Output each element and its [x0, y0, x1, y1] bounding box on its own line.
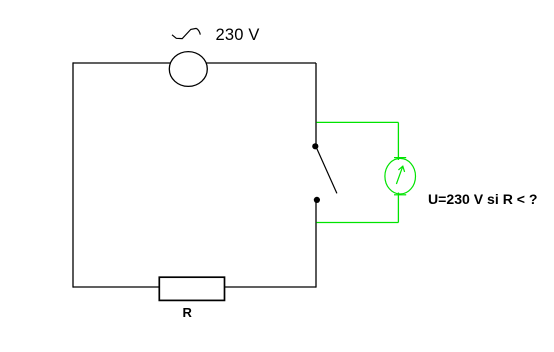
green wire right lower [397, 193, 399, 223]
wire right lower (switch to bottom node) [315, 200, 317, 288]
wire right upper (top node to switch) [315, 63, 317, 146]
green wire top (switch top to voltmeter) [316, 121, 398, 123]
switch S1 lever [317, 149, 337, 194]
resistor R [159, 277, 224, 300]
svg-text:U=230 V si R < ?: U=230 V si R < ? [428, 192, 538, 207]
AC source V1 [169, 52, 207, 87]
voltmeter needle [396, 166, 404, 184]
switch S1 top contact [312, 143, 318, 149]
green wire bottom (voltmeter back to switch bottom) [316, 222, 398, 224]
green wire right upper [397, 122, 399, 160]
voltmeter terminal tick bottom [394, 194, 406, 196]
AC waveform symbol [172, 28, 200, 38]
voltmeter terminal tick top [394, 157, 406, 159]
wire top (node between source and switch) [73, 62, 316, 64]
switch S1 bottom contact [314, 197, 320, 203]
voltmeter U (meter body) [385, 158, 416, 194]
svg-text:R: R [183, 305, 193, 320]
wire left side [72, 62, 74, 287]
wire bottom [73, 286, 316, 288]
svg-text:230 V: 230 V [216, 26, 260, 44]
